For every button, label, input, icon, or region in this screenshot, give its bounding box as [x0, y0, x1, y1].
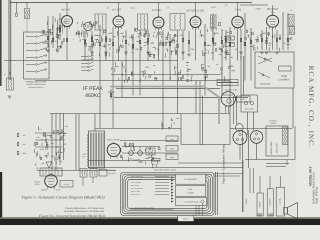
wire v106: [105, 30, 107, 61]
svg-text:TONE: TONE: [281, 75, 288, 78]
capacitor C30 by IF label: [110, 93, 112, 97]
svg-text:Figure 10—Universal Transforme: Figure 10—Universal Transformer (Model 9…: [38, 214, 106, 218]
switch contact S2-4: [81, 66, 87, 68]
wire top rail right: [240, 4, 268, 6]
wire v79 low: [78, 114, 80, 170]
transformer primary coil: [87, 134, 88, 167]
transformer lamination 7: [99, 133, 101, 167]
plug label P3: [166, 154, 178, 160]
wire loom exit a: [215, 172, 217, 215]
output transformer T11: [40, 168, 62, 176]
field coil label box: [257, 193, 263, 216]
svg-text:60~: 60~: [82, 156, 85, 159]
loom box TO SPEAKER: [176, 174, 206, 184]
wire v60 low: [59, 114, 61, 166]
transformer lamination 1: [89, 133, 91, 167]
wire grid cap V4: [195, 3, 197, 17]
wire v118 cathode: [118, 27, 120, 61]
component cluster top labels: [98, 53, 100, 56]
svg-text:SPEAKER CONNECTIONS: SPEAKER CONNECTIONS: [154, 168, 177, 171]
capacitor C5: [125, 40, 127, 44]
svg-text:1ST DET. A-105: 1ST DET. A-105: [186, 10, 204, 13]
svg-text:10MF: 10MF: [138, 160, 142, 163]
speaker plug J2: [250, 131, 263, 144]
component cluster heater taps: [168, 127, 170, 130]
wire bus y74: [111, 74, 220, 76]
svg-text:CONTROL 2: CONTROL 2: [222, 83, 232, 86]
fig10 coils: [80, 169, 87, 178]
resistor R10: [177, 44, 179, 48]
ground G2: [56, 49, 60, 51]
wire v237 cathode: [237, 29, 239, 61]
fig10 plug box: [99, 170, 107, 177]
loom arrow 6: [171, 191, 173, 193]
wire v189: [188, 31, 190, 52]
speaker socket J1: [233, 131, 247, 145]
wire grid cap V2: [118, 3, 120, 17]
resistor R13: [229, 42, 231, 46]
wire v181 box: [180, 114, 182, 145]
capacitor C15: [219, 22, 221, 26]
T11 lamination 1: [42, 169, 44, 175]
resistor R9: [162, 42, 164, 46]
wire v245: [244, 13, 246, 81]
resistor R3: [59, 28, 61, 32]
wire v56 low: [55, 114, 57, 171]
resistor R8: [147, 38, 149, 42]
wire antenna lead a: [8, 0, 10, 80]
capacitor C4: [105, 38, 107, 42]
wire antenna lead b: [10, 0, 12, 80]
wire dial pair a: [233, 96, 235, 124]
wire v226: [225, 30, 227, 61]
component cluster below V5: [206, 75, 207, 78]
svg-text:#22: #22: [23, 134, 26, 137]
svg-text:6L7 DET.: 6L7 DET.: [112, 9, 122, 12]
capacitor C10: [225, 38, 227, 42]
wire heater y140: [120, 140, 178, 142]
wire v295 fig: [294, 126, 296, 160]
ground G8: [187, 53, 191, 55]
loom box DIAL: [176, 185, 206, 196]
svg-text:.05MF: .05MF: [101, 45, 107, 48]
svg-text:6F6G: 6F6G: [35, 183, 40, 186]
dial pulley: [236, 124, 244, 132]
svg-text:PLUG: PLUG: [183, 218, 188, 221]
svg-text:TUNING TUBE: TUNING TUBE: [225, 88, 239, 91]
antenna coil L1: [25, 9, 30, 19]
tone switch wafer: [258, 56, 272, 62]
svg-text:#27: #27: [45, 155, 48, 158]
wire v92: [91, 31, 93, 61]
wire v222: [221, 30, 223, 96]
IF transformer T3: [95, 14, 106, 30]
terminal E1: [258, 214, 260, 216]
resistor R26: [17, 142, 19, 146]
loom right links: [214, 173, 243, 175]
ground G6: [146, 51, 150, 53]
wire bus y113: [50, 113, 230, 115]
power cluster: [130, 143, 131, 146]
loom arrow 4: [171, 185, 173, 187]
IF transformer T5: [170, 14, 185, 31]
ground G3: [90, 51, 94, 53]
wire v230: [229, 27, 231, 96]
svg-text:GREEN: GREEN: [41, 189, 48, 192]
svg-text:#23: #23: [23, 143, 26, 146]
bias rail c: [35, 146, 63, 148]
speaker cone: [288, 203, 298, 220]
bias cluster: [45, 139, 46, 142]
svg-text:2M: 2M: [166, 36, 169, 39]
filter choke L10: [146, 148, 155, 155]
tone switch inner box: [279, 66, 291, 71]
svg-text:6K7 R.F.: 6K7 R.F.: [62, 9, 71, 12]
wire pulley down a: [242, 130, 244, 212]
svg-text:#6: #6: [251, 4, 253, 7]
wire grid cap V6: [272, 5, 274, 15]
svg-text:FIELD 2450Ω: FIELD 2450Ω: [270, 141, 273, 154]
IF transformer T6: [211, 15, 217, 28]
loom arrow 5: [171, 188, 173, 190]
wire bus y80: [35, 80, 230, 82]
svg-text:GREEN: GREEN: [245, 198, 248, 205]
switch contact S1-5: [26, 64, 35, 66]
capacitor C25: [17, 151, 19, 155]
transformer lamination 9: [102, 133, 104, 167]
wire v202 mid: [202, 96, 204, 146]
wire v272 cathode: [272, 28, 274, 51]
wire AVC bus y60: [4, 60, 178, 62]
filter capacitor C40: [129, 151, 134, 156]
capacitor C7: [169, 42, 171, 46]
wire v163: [162, 30, 164, 129]
wire v133: [132, 34, 134, 96]
wire v288: [287, 13, 289, 50]
T11 lamination 4: [51, 169, 53, 175]
svg-text:Spkr. Wiring: Spkr. Wiring: [314, 187, 318, 204]
component cluster detector: [82, 23, 84, 25]
loom arrow 1: [171, 176, 173, 178]
terminal ANT: [9, 72, 11, 74]
wire pulley down b: [248, 130, 250, 168]
wire v230 box: [229, 96, 231, 145]
capacitor C2: [66, 38, 68, 42]
wire v253 low: [253, 112, 255, 131]
wire y160: [88, 160, 160, 162]
transformer lamination 8: [101, 133, 103, 167]
ground G12: [265, 51, 269, 53]
component cluster output stage: [265, 37, 267, 42]
wire v52 low: [51, 114, 53, 171]
svg-text:#44: #44: [242, 98, 245, 101]
range selector box S1: [24, 32, 50, 79]
component cluster RF input: [49, 29, 51, 32]
boxed label 225a: [225, 36, 235, 40]
transformer lamination 5: [96, 133, 98, 167]
output trans label box: [267, 189, 273, 216]
svg-text:TO 41MF: TO 41MF: [108, 169, 115, 172]
tube V4 IF 6K7: [190, 17, 201, 28]
svg-text:#26: #26: [37, 136, 40, 139]
scan edge left bottom: [0, 172, 2, 225]
transformer lamination 3: [93, 133, 95, 167]
wire v148: [147, 30, 149, 61]
tube V9 6F6: [45, 175, 58, 188]
dial lamps box: [241, 95, 258, 112]
filter capacitor C41: [138, 151, 143, 156]
svg-text:2M: 2M: [219, 48, 222, 51]
wire v53: [52, 16, 54, 48]
loom arrow 2: [171, 179, 173, 181]
svg-text:A-105: A-105: [235, 9, 242, 12]
svg-text:TO SPEAKER: TO SPEAKER: [184, 178, 197, 181]
wire v67 cathode: [66, 27, 68, 61]
switch contact S2-5: [81, 70, 87, 72]
capacitor C11: [240, 38, 242, 42]
lamp I2: [250, 101, 253, 104]
svg-text:1MEG: 1MEG: [40, 148, 45, 151]
transformer lamination 4: [94, 133, 96, 167]
wire loom down a: [195, 205, 197, 215]
IF transformer T4: [138, 14, 148, 30]
wire xfmr feed: [94, 114, 96, 131]
svg-text:OSC.: OSC.: [131, 7, 136, 10]
wire br v253: [253, 168, 255, 193]
ground G11: [260, 51, 264, 53]
svg-text:460KC: 460KC: [85, 93, 101, 99]
svg-text:#2: #2: [107, 7, 109, 10]
wire grid cap V1: [66, 3, 68, 16]
resistor R5: [99, 42, 101, 46]
tube V6 output 6F6: [267, 15, 279, 27]
wire filter y146: [122, 146, 160, 148]
svg-text:Secondary Resistance—0.4 ohms: Secondary Resistance—0.4 ohms total: [64, 210, 104, 213]
wire B+ bus right: [230, 128, 292, 130]
power transformer T10: [89, 131, 105, 168]
rectifier tube V8 5Y4: [107, 144, 120, 157]
wire v213: [212, 14, 214, 61]
wire v140: [139, 30, 141, 96]
field coil hatch: [283, 127, 288, 145]
wire loom down b: [198, 205, 200, 215]
ground G4: [104, 51, 108, 53]
ground G5: [124, 51, 128, 53]
wire v251: [250, 28, 252, 81]
wire B+ bus left: [95, 128, 181, 130]
scan edge bottom fade: [0, 217, 320, 219]
loom bundle ring 3: [124, 176, 211, 212]
ground G13: [275, 51, 279, 53]
lamp I1: [244, 101, 247, 104]
svg-text:OUTPUT: OUTPUT: [269, 198, 272, 207]
component cluster oscillator: [156, 32, 158, 35]
wire box feed a: [259, 176, 261, 193]
svg-text:30M: 30M: [50, 142, 54, 145]
resistor R17: [212, 38, 214, 42]
svg-text:VC-257: VC-257: [63, 183, 69, 186]
svg-text:Figure 5—Schematic Circuit Dia: Figure 5—Schematic Circuit Diagram (Mode…: [21, 195, 106, 200]
tube V2 1st det 6L7: [113, 16, 124, 27]
scan edge left top: [0, 0, 2, 86]
wire stub x16: [16, 3, 18, 14]
wire v266: [266, 27, 268, 50]
capacitor C13: [266, 40, 268, 44]
wire top rail: [10, 2, 252, 4]
ground G10: [239, 51, 243, 53]
ground G9: [224, 51, 228, 53]
svg-text:270: 270: [39, 128, 42, 131]
svg-text:+250V: +250V: [255, 8, 262, 11]
volume control label box 2: [217, 83, 238, 86]
resistor R15: [261, 38, 263, 42]
resistor R7: [132, 44, 134, 48]
wire loom exit b: [217, 172, 219, 215]
terminal E4: [271, 214, 273, 216]
loom bundle ring 5: [127, 179, 207, 208]
wire box feed b: [269, 176, 271, 189]
svg-text:#8: #8: [57, 133, 59, 136]
wire v100: [99, 25, 101, 129]
resistor R12: [221, 40, 223, 44]
switch contact S2-2: [81, 59, 87, 61]
wire br top a: [266, 163, 289, 165]
svg-text:FIELD: FIELD: [258, 201, 261, 207]
wire v122: [121, 61, 123, 97]
resistor box R22: [237, 96, 251, 102]
wire v170: [169, 34, 171, 81]
osc coil T2: [84, 22, 93, 31]
capacitor C6: [139, 40, 141, 44]
wire v113: [112, 27, 114, 114]
capacitor C8: [182, 38, 184, 42]
scan edge bottom band: [0, 219, 320, 225]
wire v48: [47, 16, 49, 48]
speaker fieldbox: [266, 126, 288, 156]
wire v241 tone left: [240, 56, 242, 95]
component cluster below V3: [174, 67, 176, 69]
T11 lamination 5: [54, 169, 56, 175]
wire v195 cathode: [195, 28, 197, 61]
wire bus y97: [114, 96, 248, 98]
switch contact S1-2: [26, 43, 35, 45]
svg-text:V.COIL: V.COIL: [279, 198, 282, 204]
component cluster below V2: [131, 71, 133, 75]
svg-text:VOLUME 1: VOLUME 1: [223, 80, 232, 83]
resistor R6: [112, 42, 114, 46]
loom bundle ring 1: [121, 173, 215, 216]
wire v196 mid: [195, 81, 197, 114]
svg-text:BLK-RED: BLK-RED: [108, 172, 116, 175]
wire grid cap V3: [158, 3, 160, 18]
svg-text:LAMPS: LAMPS: [187, 191, 194, 194]
loom box LEADS: [176, 198, 207, 206]
transformer lamination 6: [97, 133, 99, 167]
boxed label 225b: [225, 43, 235, 47]
wire v126: [125, 30, 127, 81]
svg-text:A.V.C.: A.V.C.: [211, 6, 217, 9]
component cluster below V4: [179, 72, 180, 75]
capacitor C9: [204, 42, 206, 46]
wire v177: [177, 30, 179, 114]
loom node diamond: [201, 200, 205, 204]
svg-text:.05: .05: [59, 153, 61, 156]
wire grid cap V5: [237, 3, 239, 17]
svg-text:RANGE SELECTOR: RANGE SELECTOR: [26, 80, 47, 83]
wire fig10 drop2: [92, 177, 94, 183]
resistor R30: [152, 159, 160, 162]
svg-text:250M: 250M: [213, 32, 218, 35]
wire v283: [282, 12, 284, 50]
loom bundle ring 4: [126, 178, 209, 211]
capacitor C12: [250, 40, 252, 44]
plug label P2: [166, 146, 178, 152]
transformer lamination 2: [91, 133, 93, 167]
resistor R16: [276, 38, 278, 42]
wire y163: [178, 162, 243, 164]
terminal E2: [260, 214, 262, 216]
svg-text:IF PEAK: IF PEAK: [83, 86, 103, 92]
ground G30: [46, 162, 52, 168]
wire fig10 drop1: [82, 177, 84, 186]
wire dial pair b: [236, 96, 238, 124]
switch contact S1-3: [26, 50, 35, 52]
wire dashed gang: [26, 19, 28, 32]
loom bundle ring 2: [122, 174, 212, 214]
switch contact S1-4: [26, 57, 35, 59]
loom arrow 8: [171, 197, 173, 199]
loom arrow 3: [171, 182, 173, 184]
capacitor C14: [287, 38, 289, 42]
wire v113 ext: [112, 114, 114, 129]
svg-text:RECT. 5Y4G: RECT. 5Y4G: [108, 139, 120, 142]
svg-text:8MF: 8MF: [129, 158, 132, 161]
T11 lamination 2: [45, 169, 47, 175]
ground G1: [46, 49, 50, 51]
dial cord: [110, 87, 219, 125]
svg-text:GRN: GRN: [170, 156, 175, 159]
tone control box: [255, 52, 294, 88]
output transformer T7: [288, 15, 294, 27]
wire fig10 top y170: [37, 170, 116, 172]
wire v243 tone left2: [243, 56, 245, 95]
svg-text:Figure 8—Loudspeaker Wiring: Figure 8—Loudspeaker Wiring: [222, 144, 226, 185]
wire v200 mid: [199, 81, 201, 146]
wire bus y88: [116, 87, 220, 89]
switch contact S1-1: [26, 36, 35, 38]
wire speaker drop a: [239, 145, 241, 160]
tube V1 RF 6K7: [62, 16, 73, 27]
wire v277: [276, 30, 278, 50]
wire v158 cathode: [158, 29, 160, 61]
switch contact S2-1: [81, 56, 87, 58]
wire tuning drop b: [227, 106, 229, 114]
wire br v243: [242, 160, 244, 212]
volume control label box 1: [217, 79, 238, 82]
wire v57: [57, 20, 59, 48]
wire tuning drop a: [224, 106, 226, 114]
capacitor C3: [91, 38, 93, 42]
switch contact S1-6: [26, 71, 35, 73]
svg-text:1MEG: 1MEG: [225, 36, 231, 39]
antenna coil L2: [7, 78, 14, 90]
ground G20: [8, 95, 12, 97]
svg-text:50M: 50M: [230, 42, 234, 45]
wire br up: [286, 160, 288, 165]
resistor R1: [47, 36, 49, 40]
bias rail b: [35, 139, 65, 141]
socket box: [60, 181, 73, 188]
